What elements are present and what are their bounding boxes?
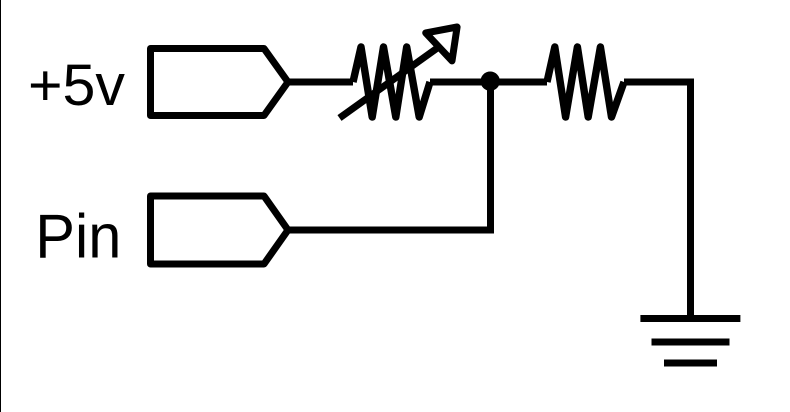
svg-text:Pin: Pin — [35, 203, 121, 272]
svg-text:+5v: +5v — [28, 53, 125, 118]
